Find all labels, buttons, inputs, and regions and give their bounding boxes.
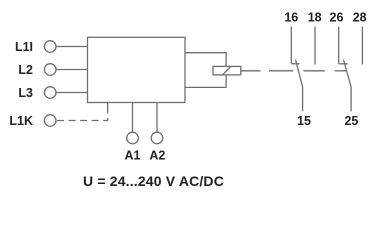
terminal circle L1I xyxy=(44,41,56,53)
terminal circle L2 xyxy=(44,64,56,76)
svg-text:L3: L3 xyxy=(18,86,33,100)
wire coil to linkage xyxy=(241,70,261,72)
output sub-box xyxy=(185,53,226,88)
contact terminal 28 wire xyxy=(361,27,363,65)
svg-text:18: 18 xyxy=(308,11,322,25)
svg-text:A1: A1 xyxy=(125,149,141,163)
contact terminal 16 wire xyxy=(290,27,292,64)
contact 16 seat tick xyxy=(291,63,299,65)
terminal circle L1K xyxy=(44,115,56,127)
relay coil diagonal xyxy=(223,66,231,75)
contact 26 seat tick xyxy=(339,63,348,65)
svg-text:16: 16 xyxy=(284,11,298,25)
contact terminal 15 wire xyxy=(302,87,304,111)
mechanical linkage dash 2 xyxy=(303,70,325,72)
wire L1K dashed xyxy=(56,103,107,121)
svg-text:25: 25 xyxy=(344,114,358,128)
wire A2 xyxy=(156,103,158,132)
svg-text:28: 28 xyxy=(353,11,367,25)
svg-text:L1K: L1K xyxy=(9,114,33,128)
svg-text:15: 15 xyxy=(297,114,311,128)
device box xyxy=(88,37,186,102)
svg-text:L1I: L1I xyxy=(15,40,33,54)
contact terminal 26 wire xyxy=(338,27,340,64)
svg-text:A2: A2 xyxy=(149,149,165,163)
mechanical linkage dash 3 xyxy=(335,70,346,72)
wire L3 to box xyxy=(56,92,88,94)
contact arm 25-26 xyxy=(344,60,352,88)
terminal circle A2 xyxy=(151,132,163,144)
svg-text:U = 24...240 V AC/DC: U = 24...240 V AC/DC xyxy=(83,173,224,189)
contact arm 15-16 xyxy=(296,60,303,88)
wire A1 xyxy=(132,103,134,132)
relay coil K1 xyxy=(213,66,241,75)
terminal circle L3 xyxy=(44,87,56,99)
terminal circle A1 xyxy=(127,132,139,144)
contact terminal 25 wire xyxy=(350,87,352,111)
wire L1I to box xyxy=(56,46,88,48)
svg-text:L2: L2 xyxy=(18,63,33,77)
contact terminal 18 wire xyxy=(314,27,316,65)
svg-text:26: 26 xyxy=(330,11,344,25)
wire L2 to box xyxy=(56,69,88,71)
mechanical linkage dash 1 xyxy=(269,70,293,72)
